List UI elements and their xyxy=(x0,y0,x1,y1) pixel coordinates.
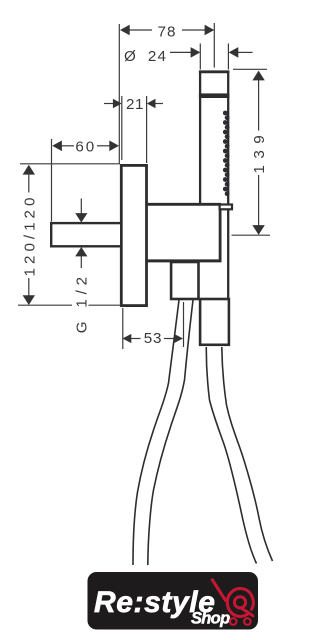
centerline of shower / 78 right extension xyxy=(213,23,215,68)
wall plate (side view) xyxy=(121,165,146,305)
21 left arrow xyxy=(113,99,122,108)
svg-text:78: 78 xyxy=(158,24,177,41)
hand shower body right edge xyxy=(227,71,229,299)
dimension texts xyxy=(21,24,268,348)
shower hose right leg inner line xyxy=(206,347,256,564)
78 left arrow xyxy=(120,25,130,36)
120/120 dimension line xyxy=(28,175,30,193)
logo cart wheel right xyxy=(244,618,251,625)
Ø24 extension line left xyxy=(199,44,201,70)
G 1/2 connection spigot xyxy=(51,223,121,246)
svg-text:139: 139 xyxy=(251,129,268,174)
21 right arrow xyxy=(147,99,156,108)
hand shower body left edge xyxy=(199,71,201,204)
53 dimension tails xyxy=(131,338,141,340)
G1/2 lower leader xyxy=(80,256,82,268)
svg-text:53: 53 xyxy=(144,330,163,347)
logo cart wheel left xyxy=(230,618,237,625)
holder box bottom edge xyxy=(145,259,221,262)
120/120 bottom arrow xyxy=(23,295,35,305)
139 bottom extension line xyxy=(232,234,271,236)
G1/2 up arrow xyxy=(75,247,87,256)
53 extension line right (hose centerline) xyxy=(183,302,185,347)
shower hose left leg inner line xyxy=(148,300,193,565)
60 left arrow xyxy=(52,141,62,152)
120/120 top arrow xyxy=(23,165,35,175)
svg-text:21: 21 xyxy=(126,96,144,113)
G1/2 upper leader xyxy=(80,199,82,215)
60 extension line left xyxy=(51,139,53,222)
hose nut of hand shower xyxy=(200,299,229,345)
78 right arrow xyxy=(205,25,215,36)
logo @ inner ring xyxy=(234,597,245,608)
120/120 top extension line xyxy=(20,163,120,165)
78 dimension line xyxy=(128,29,152,31)
G1/2 down arrow xyxy=(75,213,87,222)
logo box xyxy=(88,572,259,630)
logo @ tail xyxy=(241,608,253,616)
Ø24 dimension tail right xyxy=(237,51,253,53)
logo @ outer ring xyxy=(227,588,253,616)
svg-text:120/120: 120/120 xyxy=(21,194,38,277)
logo cart handle xyxy=(212,580,225,600)
hand shower top cap xyxy=(199,70,230,73)
holder box top edge xyxy=(145,203,221,206)
holder box right edge xyxy=(219,204,222,261)
arrowheads xyxy=(23,25,265,343)
shower hose left leg outer line xyxy=(133,300,179,565)
extension line left (78/60 shared) xyxy=(118,24,120,164)
139 bottom arrow xyxy=(252,225,264,235)
hose outlet connector xyxy=(171,262,198,299)
53 right arrow xyxy=(174,334,183,343)
holder hook xyxy=(220,205,232,210)
shower hose right leg outer line xyxy=(222,347,273,561)
60 right arrow xyxy=(109,141,119,152)
53 left arrow xyxy=(122,334,131,343)
svg-text:60: 60 xyxy=(75,138,96,155)
Ø24 extension line right xyxy=(227,44,229,70)
139 top extension line xyxy=(233,68,267,70)
svg-text:Ø 24: Ø 24 xyxy=(124,48,167,65)
Ø24 right arrow xyxy=(229,47,239,58)
Ø24 dimension tail left xyxy=(170,51,192,53)
svg-text:Shop: Shop xyxy=(191,610,230,628)
120/120 bottom extension line xyxy=(18,304,72,306)
139 dimension line xyxy=(258,80,260,131)
53 extension line left xyxy=(122,308,124,349)
60 dimension line xyxy=(61,145,74,147)
svg-text:G 1/2: G 1/2 xyxy=(74,272,91,333)
knurled spray face beads xyxy=(223,111,230,197)
Re:style Shop logo xyxy=(88,572,259,630)
139 top arrow xyxy=(252,71,264,81)
hand shower collar band xyxy=(199,93,230,98)
21 dimension tails xyxy=(104,103,114,105)
dimension lines and extension lines xyxy=(18,23,270,349)
21 extension lines xyxy=(121,96,123,160)
Ø24 left arrow xyxy=(191,47,201,58)
